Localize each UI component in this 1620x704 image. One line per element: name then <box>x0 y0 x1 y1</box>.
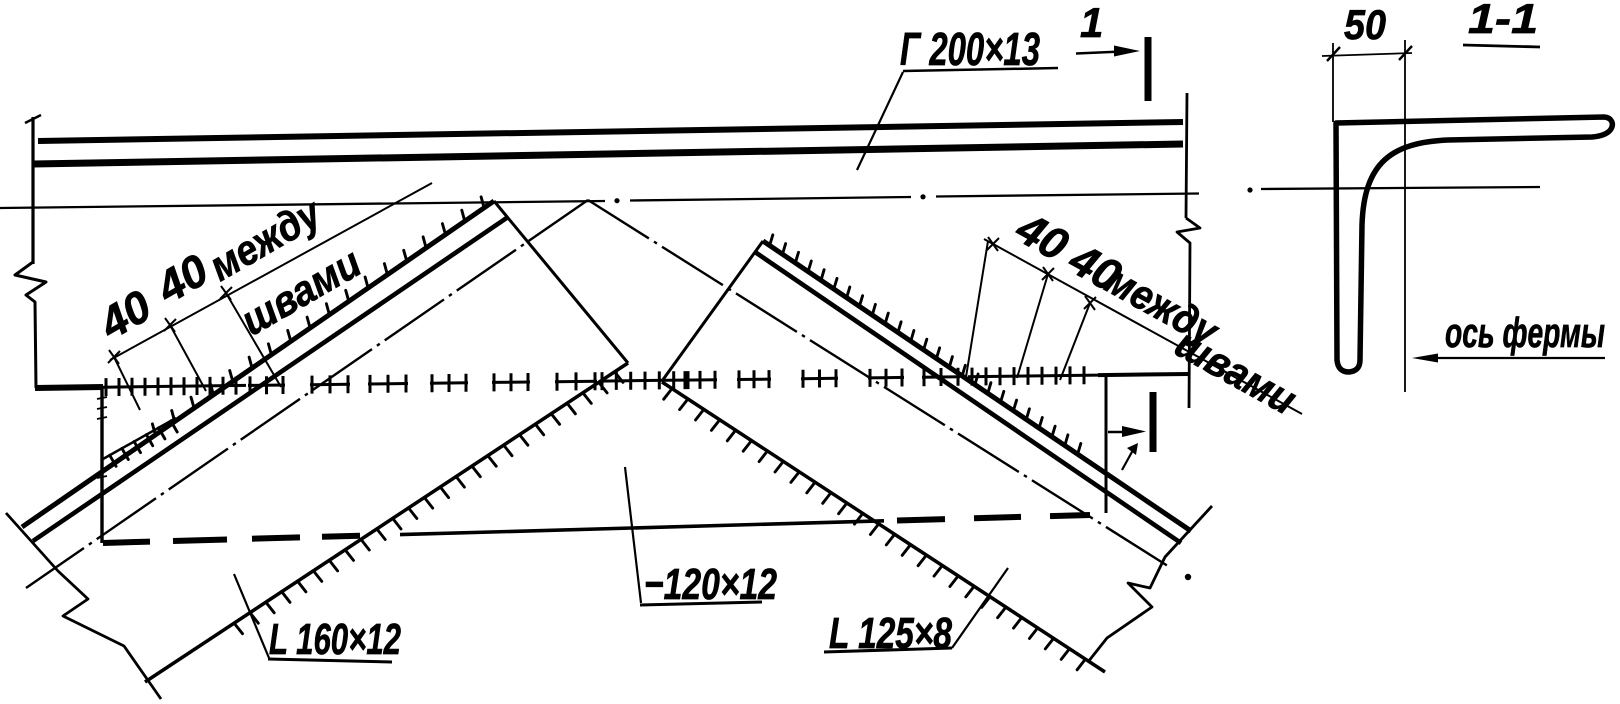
svg-text:1: 1 <box>1080 0 1103 46</box>
svg-text:L 160×12: L 160×12 <box>269 615 401 664</box>
svg-text:1-1: 1-1 <box>1468 0 1538 42</box>
svg-text:Г 200×13: Г 200×13 <box>900 23 1040 75</box>
svg-text:ось фермы: ось фермы <box>1445 309 1605 356</box>
svg-text:50: 50 <box>1344 1 1386 48</box>
